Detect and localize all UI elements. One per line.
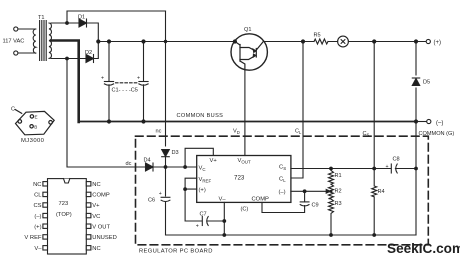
- svg-text:723: 723: [59, 201, 69, 207]
- svg-text:R2: R2: [335, 189, 342, 195]
- svg-text:V–: V–: [219, 197, 227, 203]
- svg-text:+: +: [386, 164, 389, 170]
- wire plus pin to C7: [185, 189, 202, 221]
- wire secondary bottom tap to D2: [51, 58, 86, 60]
- node R4 CS junction: [372, 167, 376, 171]
- svg-text:D1: D1: [78, 15, 85, 21]
- diode D4: [146, 163, 197, 171]
- transformer T1 primary coil: [33, 29, 36, 53]
- wire V- pin down: [223, 202, 225, 235]
- terminal primary top: [14, 27, 18, 31]
- wire capacitor C5 leads: [143, 42, 145, 122]
- capacitor C7: [202, 217, 224, 226]
- wire main positive rail left of Q1: [98, 41, 235, 43]
- svg-text:SeekIC.com: SeekIC.com: [387, 241, 460, 256]
- wire D5 branch and right pad line: [415, 42, 417, 236]
- wire minus pin to divider wiper: [291, 190, 327, 192]
- wiper arrow: [326, 190, 330, 194]
- resistor R3: [329, 199, 334, 235]
- svg-text:NC: NC: [92, 182, 100, 188]
- svg-text:CS: CS: [363, 131, 370, 137]
- node minus terminal tee: [414, 119, 418, 123]
- wire secondary top tap to D1: [51, 22, 79, 24]
- wire D3 feed vertical: [165, 11, 167, 146]
- svg-text:D4: D4: [144, 158, 151, 164]
- node Q1 collector: [233, 39, 237, 43]
- svg-text:CL: CL: [295, 129, 302, 135]
- wire common buss: [79, 121, 416, 123]
- svg-text:VOUT: VOUT: [238, 158, 251, 164]
- terminal minus output: [427, 119, 431, 123]
- svg-text:117 VAC: 117 VAC: [3, 38, 25, 44]
- node C5 top: [141, 39, 145, 43]
- node plus pin jumper: [183, 187, 187, 191]
- node D1 anode tap: [65, 21, 69, 25]
- node D3 rail tap: [164, 40, 167, 43]
- wire CL sense line: [291, 42, 303, 179]
- svg-text:UNUSED: UNUSED: [92, 235, 116, 241]
- node R4 bottom: [372, 233, 376, 237]
- svg-text:COMMON BUSS: COMMON BUSS: [177, 113, 224, 119]
- wire primary bottom lead: [18, 52, 36, 54]
- svg-text:COMP: COMP: [92, 193, 110, 199]
- svg-text:+: +: [159, 191, 162, 197]
- 723 DIP package outline: [43, 179, 91, 254]
- wire common buss to minus terminal: [416, 121, 427, 123]
- svg-text:VC: VC: [92, 214, 100, 220]
- svg-text:nc: nc: [156, 129, 162, 135]
- svg-text:dc: dc: [126, 161, 132, 167]
- node rectifier output: [96, 39, 100, 43]
- node C8 right: [414, 167, 418, 171]
- svg-text:V–: V–: [34, 246, 42, 252]
- node C5 bottom: [141, 119, 145, 123]
- node R1 top: [329, 167, 333, 171]
- svg-text:(C): (C): [241, 207, 249, 213]
- svg-text:E: E: [35, 115, 38, 120]
- resistor R2: [329, 184, 334, 199]
- capacitor C9: [300, 191, 309, 206]
- svg-text:(–): (–): [436, 121, 443, 127]
- svg-text:V REF: V REF: [24, 235, 42, 241]
- transformer T1 secondary coil: [49, 23, 51, 58]
- node C9 top: [303, 189, 307, 193]
- svg-text:(+): (+): [199, 188, 206, 194]
- svg-text:R4: R4: [378, 189, 385, 195]
- svg-text:NC: NC: [33, 182, 41, 188]
- wire CS pin line to R1 R4 C8: [291, 168, 416, 170]
- wire V+ loop from VC node: [185, 148, 213, 167]
- svg-text:C7: C7: [200, 212, 207, 218]
- svg-text:COMMON (G): COMMON (G): [419, 131, 455, 137]
- svg-text:D5: D5: [423, 80, 430, 86]
- node CL rail tap: [301, 39, 305, 43]
- svg-text:C1- - - -C5: C1- - - -C5: [112, 88, 138, 94]
- svg-text:V+: V+: [92, 203, 100, 209]
- wire VREF to plus jumper: [185, 178, 197, 189]
- transistor Q1 darlington internals: [235, 42, 264, 70]
- svg-text:723: 723: [234, 175, 245, 182]
- node C7 to Vminus: [222, 219, 226, 223]
- wire C6 branch: [166, 167, 225, 235]
- wire transformer centertap to common buss: [51, 41, 79, 123]
- regulator pc board dashed border: [136, 136, 429, 245]
- svg-text:(+): (+): [434, 40, 442, 46]
- node C1 top: [107, 39, 111, 43]
- wire regulator ground rail: [224, 234, 416, 236]
- svg-text:R5: R5: [314, 32, 321, 38]
- transformer T1 core: [40, 21, 47, 61]
- svg-text:V+: V+: [210, 158, 218, 164]
- svg-text:(–): (–): [34, 214, 41, 220]
- svg-text:T1: T1: [38, 15, 45, 21]
- capacitor C6: [161, 197, 170, 201]
- TO-3 package MJ3000 outline: [15, 110, 54, 135]
- svg-text:MJ3000: MJ3000: [21, 138, 45, 144]
- node R1 R2 wiper: [330, 190, 333, 193]
- svg-text:+: +: [101, 76, 104, 82]
- svg-text:B: B: [34, 124, 37, 129]
- diode D1: [79, 19, 98, 42]
- node Vminus ground rail: [222, 233, 226, 237]
- svg-text:VC: VC: [199, 166, 206, 172]
- svg-text:+: +: [196, 224, 199, 230]
- svg-text:D3: D3: [172, 150, 179, 156]
- svg-text:C6: C6: [148, 198, 155, 204]
- wire COMP to C9 bottom: [262, 202, 305, 212]
- svg-text:R3: R3: [335, 201, 342, 207]
- terminal primary bottom: [14, 51, 18, 55]
- transistor Q1 circle: [231, 34, 267, 70]
- diode D3: [162, 150, 170, 168]
- capacitor C5: [139, 82, 148, 86]
- diode D2: [86, 42, 98, 63]
- wire Q1 base to 723 VOUT: [244, 70, 246, 156]
- svg-text:C9: C9: [312, 203, 319, 209]
- svg-text:D2: D2: [85, 50, 92, 56]
- svg-text:(+): (+): [34, 224, 41, 230]
- meter M ammeter circle: [338, 36, 349, 47]
- node D2 anode tap: [65, 57, 69, 61]
- node CS rail tap: [372, 39, 376, 43]
- node R3 bottom: [329, 233, 333, 237]
- resistor R4: [372, 169, 377, 236]
- svg-text:CS: CS: [33, 203, 41, 209]
- node plus terminal tee: [414, 39, 418, 43]
- wire capacitor C1 leads: [108, 42, 110, 122]
- resistor R1: [329, 169, 334, 185]
- wire dc feed from secondary bottom: [67, 59, 145, 168]
- wire CS sense line: [373, 42, 375, 169]
- svg-text:NC: NC: [92, 246, 100, 252]
- wire dashed link C1 to C5: [116, 82, 138, 84]
- wire primary top lead: [18, 28, 36, 30]
- svg-text:REGULATOR PC BOARD: REGULATOR PC BOARD: [139, 249, 213, 255]
- wire top rail from D1 anode node to D3 feed: [67, 11, 166, 23]
- node VC Vplus loop: [183, 165, 187, 169]
- svg-text:CL: CL: [34, 193, 42, 199]
- diode D5: [412, 78, 419, 86]
- terminal plus output: [426, 39, 430, 43]
- capacitor C8: [391, 164, 397, 173]
- svg-text:C: C: [11, 107, 15, 113]
- svg-text:(TOP): (TOP): [56, 212, 72, 218]
- svg-text:Q1: Q1: [244, 27, 251, 33]
- svg-text:R1: R1: [335, 173, 342, 179]
- svg-text:C8: C8: [393, 157, 400, 163]
- node VC D3 D4 C6: [164, 165, 168, 169]
- svg-text:(–): (–): [279, 190, 286, 196]
- svg-text:V OUT: V OUT: [92, 224, 110, 230]
- svg-text:VD: VD: [233, 129, 240, 135]
- resistor R5: [314, 39, 328, 44]
- wire main rail Q1 to plus terminal: [263, 41, 426, 43]
- capacitor C1: [104, 82, 113, 86]
- 723 IC box: [197, 156, 291, 203]
- node C1 bottom: [107, 119, 111, 123]
- svg-text:CS: CS: [279, 165, 286, 171]
- svg-text:VREF: VREF: [199, 177, 212, 183]
- svg-text:CL: CL: [279, 177, 286, 183]
- svg-text:+: +: [137, 76, 140, 82]
- svg-text:COMP: COMP: [252, 197, 270, 203]
